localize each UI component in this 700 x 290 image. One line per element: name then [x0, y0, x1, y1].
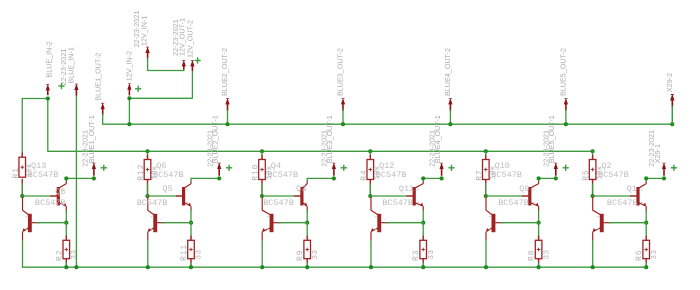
wire BLUE4_OUT-2 to bus [449, 110, 451, 124]
wire base node down to R3 [422, 223, 424, 241]
wire collector of Q4 from R bottom [261, 195, 263, 197]
origin cross BLUE5 connector [563, 165, 569, 171]
junction BLUE4_OUT-1 node [440, 176, 444, 180]
wire BLUE_IN-2 down and across to stage tops (net to all R tops) [48, 99, 593, 152]
pin BLUE5_OUT-2 [564, 98, 568, 104]
pin marks Q6 [151, 216, 153, 230]
transistor Q3 BC547B (upper) [300, 180, 307, 211]
pin marks Q8 [61, 189, 63, 203]
wire base node down to R9 [306, 223, 308, 241]
junction collector node stage 1 [64, 176, 68, 180]
pin 12V_IN-2 [127, 83, 131, 89]
wire base of Q8 (top transistor) [22, 195, 51, 197]
resistor R8 33 [538, 236, 540, 240]
wire R5 bottom [592, 180, 594, 197]
svg-text:BC547B: BC547B [153, 170, 184, 180]
svg-text:BC547B: BC547B [35, 198, 66, 208]
junction R4 bottom node [368, 194, 372, 198]
wire R1 bottom [21, 180, 23, 197]
svg-text:33: 33 [651, 249, 659, 259]
wire collector of Q11 to OUT-1 [422, 178, 424, 181]
wire base of Q5 (top transistor) [148, 195, 177, 197]
wire collector of Q2 from R bottom [592, 195, 594, 197]
svg-text:BLUE1_OUT-1: BLUE1_OUT-1 [87, 115, 96, 163]
wire R10 bottom [261, 180, 263, 197]
wire collector of Q8 to OUT-1 [65, 178, 67, 181]
junction R12 bottom node [145, 194, 149, 198]
resistor R10 [261, 155, 263, 159]
svg-text:BC547B: BC547B [268, 170, 299, 180]
junction R7 bottom node [484, 194, 488, 198]
junction base node stage 2 [189, 221, 193, 225]
transistor Q2 BC547B (lower, mirrored) [592, 197, 611, 241]
wire base of Q4 to sense resistor node [279, 222, 307, 224]
resistor R2 33 [65, 236, 67, 240]
junction BLUE5_OUT-1 node [554, 176, 558, 180]
wire R8 bottom to rail [538, 259, 540, 268]
svg-text:BLUE5_OUT-1: BLUE5_OUT-1 [547, 115, 556, 163]
wire 12V_IN-2 to 12V_OUT-2 [129, 71, 192, 99]
junction R10 bottom node [260, 194, 264, 198]
junction R8 at rail [537, 265, 541, 269]
junction X29_OUT-1 node [662, 176, 666, 180]
resistor R3 33 [422, 236, 424, 240]
pin marks Q10 [489, 216, 491, 230]
pin 12V_IN-1 [146, 47, 150, 53]
transistor Q11 BC547B (upper) [413, 180, 424, 211]
junction R7 top [484, 149, 488, 153]
wire R2 bottom to rail [65, 259, 67, 268]
svg-text:BLUE4_OUT-2: BLUE4_OUT-2 [443, 48, 452, 96]
junction emitter at rail stage 4 [369, 265, 373, 269]
wire R4 top feed [369, 151, 371, 159]
origin cross 12V_IN connector [135, 86, 141, 92]
bus wire (12V_IN-2 / OUT-2 common) [129, 123, 672, 125]
wire BLUE5_OUT-2 to bus [565, 110, 567, 124]
junction BLUE_IN-2 [46, 96, 50, 100]
wire base of Q2 to sense resistor node [609, 222, 646, 224]
pin marks Q5 [186, 189, 188, 203]
svg-text:Q9: Q9 [519, 184, 529, 194]
junction R9 at rail [305, 265, 309, 269]
wire collector of Q9 to OUT-1 [538, 178, 540, 181]
resistor R1 [21, 153, 23, 157]
wire R3 bottom to rail [422, 259, 424, 268]
junction base node stage 5 [537, 221, 541, 225]
wire base of Q6 to sense resistor node [163, 222, 191, 224]
wire emitter of Q2 to rail [592, 241, 594, 268]
junction R4 top [368, 149, 372, 153]
pin marks Q12 [375, 216, 377, 230]
wire base of Q11 (top transistor) [370, 195, 407, 197]
svg-text:BLUE2_OUT-1: BLUE2_OUT-1 [211, 115, 220, 163]
wire base of Q9 (top transistor) [486, 195, 523, 197]
svg-text:R4: R4 [360, 169, 369, 180]
pin marks Q1 [641, 189, 643, 203]
wire emitter of Q13 to rail [22, 241, 24, 268]
pin BLUE2_OUT-1 [217, 163, 221, 169]
wire R6 bottom to rail [645, 259, 647, 268]
wire emitter of Q11 down to base node [422, 211, 424, 223]
svg-text:X29-2: X29-2 [665, 73, 674, 92]
junction R12 top [145, 149, 149, 153]
resistor R4 [369, 155, 371, 159]
pin marks Q11 [417, 189, 419, 203]
junction collector node stage 6 [644, 176, 648, 180]
pin marks Q4 [267, 216, 269, 230]
origin cross BLUE_IN connector [58, 83, 64, 89]
pin marks Q3 [305, 189, 307, 203]
junction emitter at rail stage 6 [591, 265, 595, 269]
svg-text:X29-1: X29-1 [653, 144, 662, 163]
wire base node down to R2 [65, 223, 67, 241]
wire BLUE2_OUT-2 to bus [227, 110, 229, 124]
wire R12 bottom [147, 180, 149, 197]
svg-text:Q3: Q3 [296, 184, 306, 194]
pin BLUE1_OUT-1 [92, 163, 96, 169]
pin BLUE_IN-2 [46, 84, 50, 90]
svg-text:33: 33 [312, 249, 320, 259]
svg-text:33: 33 [428, 249, 436, 259]
wire emitter of Q6 to rail [147, 241, 149, 268]
pin marks Q13 [25, 216, 27, 230]
svg-text:BC547B: BC547B [607, 198, 638, 208]
svg-text:12V_IN-1: 12V_IN-1 [140, 16, 149, 46]
origin cross BLUE3 connector [341, 165, 347, 171]
wire R7 top feed [485, 151, 487, 159]
resistor R11 33 [190, 236, 192, 240]
wire X29_OUT-2 to bus [671, 106, 673, 124]
transistor Q6 BC547B (lower, mirrored) [148, 197, 166, 241]
junction BLUE3_OUT-1 node [332, 176, 336, 180]
junction BLUE2_OUT-2 bus [225, 122, 229, 126]
wire R7 bottom [485, 180, 487, 197]
wire BLUE_IN-2 junction to R1 top [22, 99, 48, 160]
wire R10 top feed [261, 151, 263, 159]
wire R11 bottom to rail [190, 259, 192, 268]
wire base node down to R8 [538, 223, 540, 241]
pin BLUE3_OUT-2 [341, 98, 345, 104]
resistor R6 33 [645, 236, 647, 240]
svg-text:33: 33 [71, 249, 79, 259]
svg-text:R2: R2 [55, 250, 64, 261]
wire BLUE1_OUT-2 to bus [103, 115, 130, 125]
wire R12 top feed [147, 151, 149, 159]
junction BLUE5_OUT-2 bus [564, 122, 568, 126]
junction 12V_IN-2 bus [127, 122, 131, 126]
svg-text:BC547B: BC547B [28, 170, 59, 180]
pin BLUE4_OUT-1 [440, 163, 444, 169]
junction R1 bottom node [20, 194, 24, 198]
origin cross BLUE2 connector [226, 165, 232, 171]
wire 12V_IN-2 to bus [128, 98, 130, 124]
svg-text:Q1: Q1 [627, 184, 637, 194]
pin 12V_OUT-1 [182, 60, 186, 66]
junction emitter at rail stage 5 [484, 265, 488, 269]
pin BLUE_IN-1 [74, 84, 78, 90]
svg-text:33: 33 [543, 249, 551, 259]
junction base node stage 1 [64, 221, 68, 225]
wire emitter of Q8 down to base node [65, 211, 67, 223]
svg-text:BLUE5_OUT-2: BLUE5_OUT-2 [558, 48, 567, 96]
origin cross X29 connector [671, 165, 677, 171]
wire emitter of Q3 down to base node [306, 211, 308, 223]
wire base node down to R6 [645, 223, 647, 241]
svg-text:R6: R6 [635, 250, 644, 261]
wire base of Q1 (top transistor) [593, 195, 631, 197]
wire 12V_IN-1 to 12V_OUT-1 [148, 58, 184, 71]
junction collector node stage 5 [537, 176, 541, 180]
junction R6 at rail [644, 265, 648, 269]
svg-text:Q5: Q5 [163, 184, 173, 194]
junction R10 top [260, 149, 264, 153]
junction R3 at rail [421, 265, 425, 269]
svg-text:BC547B: BC547B [491, 170, 522, 180]
junction R11 at rail [189, 265, 193, 269]
svg-text:BC547B: BC547B [498, 198, 529, 208]
junction BLUE3_OUT-2 bus [341, 122, 345, 126]
bottom rail (emitter/ground return) [23, 266, 646, 268]
wire collector of Q10 from R bottom [485, 195, 487, 197]
origin cross 12V_OUT connector [195, 57, 201, 63]
resistor R7 [485, 155, 487, 159]
wire emitter of Q9 down to base node [538, 211, 540, 223]
wire emitter of Q12 to rail [370, 241, 372, 268]
svg-text:BLUE_IN-1: BLUE_IN-1 [67, 47, 76, 83]
svg-text:R10: R10 [252, 164, 261, 181]
svg-text:BLUE2_OUT-2: BLUE2_OUT-2 [220, 48, 229, 96]
svg-text:BLUE4_OUT-1: BLUE4_OUT-1 [433, 115, 442, 163]
junction 12V_IN-2 [127, 96, 131, 100]
origin cross BLUE1 connector [101, 165, 107, 171]
wire collector of Q5 to OUT-1 [190, 178, 192, 181]
svg-text:12V_IN-2: 12V_IN-2 [125, 51, 134, 81]
transistor Q10 BC547B (lower, mirrored) [486, 197, 504, 241]
junction base node stage 4 [421, 221, 425, 225]
svg-text:R7: R7 [475, 169, 484, 180]
wire emitter of Q5 down to base node [190, 211, 192, 223]
wire collector of Q6 from R bottom [147, 195, 149, 197]
resistor R9 33 [306, 236, 308, 240]
pin X29_OUT-2 [670, 94, 674, 100]
junction BLUE2_OUT-1 node [217, 176, 221, 180]
svg-text:R12: R12 [137, 164, 146, 181]
wire base of Q12 to sense resistor node [387, 222, 424, 224]
svg-text:BLUE_IN-2: BLUE_IN-2 [45, 41, 54, 77]
transistor Q4 BC547B (lower, mirrored) [262, 197, 282, 241]
resistor R5 [592, 155, 594, 159]
wire emitter of Q10 to rail [485, 241, 487, 268]
svg-text:BLUE3_OUT-1: BLUE3_OUT-1 [325, 115, 334, 163]
svg-text:BC547B: BC547B [382, 198, 413, 208]
wire BLUE3_OUT-2 to bus [342, 110, 344, 124]
pin BLUE2_OUT-2 [225, 98, 229, 104]
junction base node stage 6 [644, 221, 648, 225]
wire base node down to R11 [190, 223, 192, 241]
junction BLUE4_OUT-2 bus [448, 122, 452, 126]
svg-text:R8: R8 [528, 250, 537, 261]
junction emitter at rail stage 3 [260, 265, 264, 269]
wire collector of Q13 from R bottom [21, 195, 23, 197]
wire emitter of Q4 to rail [261, 241, 263, 268]
svg-text:Q8: Q8 [55, 187, 65, 197]
wire R4 bottom [369, 180, 371, 197]
transistor Q1 BC547B (upper) [636, 180, 646, 211]
wire base of Q13 to sense resistor node [37, 222, 66, 224]
wire collector of Q3 to OUT-1 [306, 178, 308, 181]
junction BLUE1_OUT-1 node [92, 176, 96, 180]
wire collector of Q12 from R bottom [369, 195, 371, 197]
svg-text:BLUE1_OUT-2: BLUE1_OUT-2 [94, 53, 103, 101]
wire R5 top feed [592, 151, 594, 159]
svg-text:BC547B: BC547B [598, 170, 629, 180]
transistor Q9 BC547B (upper) [528, 180, 539, 211]
junction R5 top [591, 149, 595, 153]
junction base node stage 3 [305, 221, 309, 225]
pin 12V_OUT-2 [190, 60, 194, 66]
svg-text:BLUE3_OUT-2: BLUE3_OUT-2 [336, 48, 345, 96]
origin cross BLUE4 connector [448, 165, 454, 171]
resistor R12 [147, 155, 149, 159]
svg-text:BC547B: BC547B [137, 198, 168, 208]
svg-text:BC547B: BC547B [376, 170, 407, 180]
svg-text:BC547B: BC547B [263, 198, 294, 208]
transistor Q12 BC547B (lower, mirrored) [371, 197, 390, 241]
junction R5 bottom node [591, 194, 595, 198]
wire collector of Q1 to OUT-1 [645, 178, 647, 181]
pin BLUE4_OUT-2 [448, 98, 452, 104]
wire emitter of Q1 down to base node [645, 211, 647, 223]
junction collector node stage 4 [421, 176, 425, 180]
wire X29-2 to bus end [671, 107, 673, 124]
svg-text:R5: R5 [582, 169, 591, 180]
pin X29-2 [670, 94, 674, 100]
transistor Q13 BC547B (lower, mirrored) [22, 197, 40, 241]
pin BLUE1_OUT-2 [101, 103, 105, 109]
svg-text:Q11: Q11 [399, 184, 414, 194]
wire base of Q3 (top transistor) [262, 195, 295, 197]
svg-text:12V_OUT-2: 12V_OUT-2 [185, 20, 194, 58]
pin BLUE5_OUT-1 [554, 163, 558, 169]
wire BLUE_IN-1 drop to bottom rail [75, 95, 77, 267]
junction R2 at rail [64, 265, 68, 269]
junction X29-2 bus end [670, 122, 674, 126]
wire R9 bottom to rail [306, 259, 308, 268]
svg-text:R11: R11 [180, 244, 189, 261]
pin BLUE3_OUT-1 [332, 163, 336, 169]
transistor Q8 BC547B (upper) [57, 180, 67, 211]
wire base of Q10 to sense resistor node [501, 222, 539, 224]
svg-text:33: 33 [196, 249, 204, 259]
svg-text:R3: R3 [412, 250, 421, 261]
transistor Q5 BC547B (upper) [182, 180, 191, 211]
svg-text:R1: R1 [12, 167, 21, 178]
junction BLUE_IN-1 at rail [74, 265, 78, 269]
junction emitter at rail stage 2 [146, 265, 150, 269]
pin marks Q2 [597, 216, 599, 230]
svg-text:R9: R9 [296, 250, 305, 261]
pin X29_OUT-1 [662, 163, 666, 169]
pin marks Q9 [532, 189, 534, 203]
